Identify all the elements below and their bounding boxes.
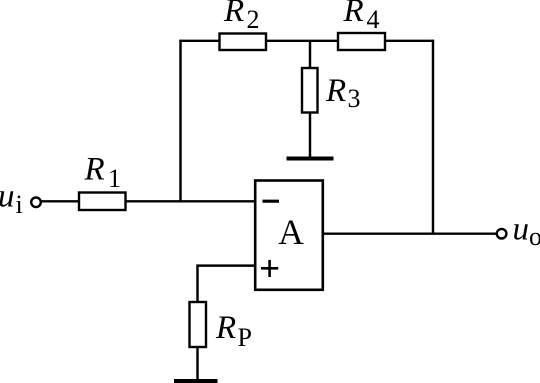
wire: left feedback vertical drop to inverting-input node (179, 40, 181, 203)
resistor R2 (220, 34, 267, 51)
op-amp U1 (block A) (255, 181, 323, 290)
svg-text:u: u (513, 212, 530, 248)
wire: R3 stem from top rail down to ground (309, 41, 311, 158)
svg-text:u: u (0, 179, 15, 215)
svg-text:R: R (215, 310, 236, 346)
svg-text:A: A (278, 212, 304, 252)
wire: right vertical from R4 rail down to output (432, 40, 434, 234)
resistor R3 (302, 68, 318, 113)
ground (below R3) (287, 157, 334, 161)
svg-text:3: 3 (348, 84, 361, 113)
wire: RP stem down to ground (196, 265, 198, 381)
wire: input from terminal through R1 to op-amp minus input (42, 200, 256, 202)
svg-text:4: 4 (367, 5, 380, 34)
output terminal circle (497, 229, 507, 239)
resistor RP (190, 302, 207, 347)
svg-text:R: R (325, 73, 346, 109)
svg-text:P: P (238, 323, 252, 352)
input terminal circle (31, 198, 41, 208)
op-amp plus input sign (261, 267, 278, 270)
wire: top feedback rail from node to R2, R2 to R4, R4 to right corner (179, 40, 434, 42)
svg-text:R: R (84, 152, 105, 188)
svg-text:R: R (343, 0, 364, 29)
wire: output from op-amp to output terminal (323, 232, 496, 234)
svg-text:o: o (529, 222, 540, 251)
resistor R1 (79, 193, 126, 211)
ground (below RP) (174, 379, 218, 383)
svg-text:i: i (16, 190, 23, 219)
svg-text:2: 2 (247, 5, 260, 34)
op-amp minus input sign (263, 200, 280, 203)
resistor R4 (338, 33, 385, 50)
svg-text:R: R (223, 0, 244, 29)
wire: non-inverting input horizontal (196, 264, 255, 266)
svg-text:1: 1 (108, 164, 121, 193)
